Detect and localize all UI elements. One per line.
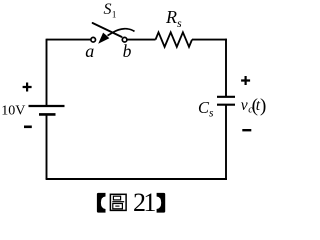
resistor Rs zigzag — [156, 32, 193, 47]
battery minus sign — [24, 126, 32, 129]
wire top-right segment — [192, 39, 227, 41]
wire bottom — [46, 178, 227, 180]
svg-text:Rs: Rs — [165, 7, 182, 30]
wire top-left segment — [47, 39, 91, 41]
switch S1 terminal b — [122, 37, 127, 42]
switch S1 motion arrowhead — [98, 33, 109, 44]
svg-text:b: b — [123, 41, 132, 61]
switch S1 blade — [93, 23, 122, 37]
svg-text:S1: S1 — [104, 1, 117, 19]
battery V1 short plate (-) — [39, 113, 56, 116]
capacitor minus sign — [242, 129, 251, 131]
svg-text:Cs: Cs — [198, 98, 214, 120]
svg-text:a: a — [85, 41, 94, 61]
capacitor Cs bottom plate — [217, 104, 235, 106]
switch S1 terminal a — [91, 37, 96, 42]
svg-text:10V: 10V — [1, 104, 25, 119]
caption glyph tu (figure) — [110, 194, 126, 210]
capacitor plus sign — [241, 76, 250, 85]
capacitor Cs top plate — [217, 96, 235, 98]
switch S1 motion arrow shaft — [108, 29, 135, 36]
battery plus sign — [23, 83, 32, 92]
wire right lower vertical — [225, 105, 227, 180]
caption left bracket — [97, 193, 106, 213]
wire left lower vertical — [46, 114, 48, 179]
svg-text:21: 21 — [133, 188, 155, 217]
wire switch b to resistor — [127, 39, 156, 41]
svg-text:vc(t): vc(t) — [241, 95, 267, 116]
wire right upper vertical — [225, 39, 227, 97]
caption right bracket — [157, 193, 166, 213]
wire left vertical — [46, 39, 48, 106]
battery V1 long plate (+) — [29, 105, 65, 107]
